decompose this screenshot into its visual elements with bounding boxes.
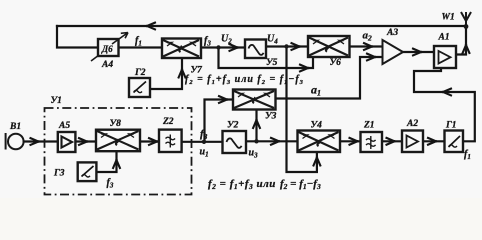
wire B1 to A5 — [24, 140, 58, 142]
wire left drop to D6 — [57, 26, 98, 48]
output stage A1 — [434, 46, 456, 68]
wire A3 to A1 — [403, 51, 434, 53]
svg-text:А2: А2 — [406, 119, 418, 129]
wire arrow into U8 — [79, 138, 87, 145]
svg-text:У4: У4 — [311, 121, 323, 131]
wire node u1 up to mixer U3 input — [205, 100, 234, 142]
wire arrow into A2 — [387, 138, 395, 145]
node dot u3 — [254, 139, 258, 143]
wire U6 output a2 to A3 — [350, 45, 383, 47]
svg-text:У8: У8 — [110, 119, 122, 129]
wire U4-signal drop to mixer U4 — [287, 47, 317, 173]
filter Z1 — [361, 132, 383, 152]
svg-text:W1: W1 — [442, 13, 455, 23]
oscillator G2 — [129, 78, 150, 97]
wire top long line — [57, 25, 466, 27]
wire top-line left arrow — [147, 23, 155, 30]
wire G2 to U7 bottom — [150, 58, 182, 89]
svg-text:А1: А1 — [438, 33, 450, 43]
wire arrow up to antenna — [463, 45, 470, 53]
wire U3 output a1 to A3 lower input — [276, 57, 383, 99]
wire U2 to U4 — [246, 140, 298, 142]
microphone B1 — [6, 133, 24, 150]
mixer U7 — [162, 39, 201, 59]
wire f3 branch down and right to U6 bottom — [219, 48, 314, 69]
mixer U6 — [308, 36, 350, 57]
dashed enclosure U1 — [45, 108, 192, 195]
svg-text:У1: У1 — [51, 96, 62, 106]
node dot U4 — [284, 44, 288, 48]
wire U4 to Z1 — [340, 140, 361, 142]
svg-text:У3: У3 — [265, 112, 277, 122]
wire arrow f3 branch — [300, 65, 308, 72]
svg-text:f2 = f1+f3 или: f2 = f1+f3 или — [208, 178, 276, 191]
wire U5 to U6 — [266, 45, 308, 47]
svg-text:Z2: Z2 — [162, 117, 174, 127]
wire G3 to U8 bottom — [96, 152, 116, 173]
wire arrow into A1 — [413, 49, 421, 56]
wire A1 output up to antenna — [454, 27, 466, 55]
wire arrow into U6 — [292, 43, 300, 50]
wire arrow into G1 — [428, 138, 436, 145]
wire arrow up into U7 — [179, 70, 186, 78]
amp A5 — [58, 132, 76, 152]
antenna W1 — [461, 12, 471, 27]
svg-text:Г3: Г3 — [53, 169, 65, 179]
svg-text:У6: У6 — [330, 58, 342, 68]
wire U8 to Z2 — [140, 140, 159, 142]
wire arrow a1 into A3 — [367, 54, 375, 61]
wire arrow after u3 node — [271, 138, 279, 145]
wire arrow up u3 — [253, 120, 260, 128]
phase shifter U5 — [245, 40, 266, 59]
wire Z2 to U2 — [182, 141, 223, 143]
svg-text:А5: А5 — [58, 121, 70, 131]
node dot f3/U2 — [216, 45, 220, 49]
wire u3 up into U3 bottom — [255, 110, 257, 142]
detector D6 box — [91, 33, 128, 62]
wire Z1 to A2 — [382, 140, 402, 142]
wire arrow feedback left — [443, 89, 451, 96]
svg-text:Г2: Г2 — [134, 68, 146, 78]
mixer U8 — [96, 130, 140, 152]
wire G1 feedback up-left into A1 bottom — [414, 68, 475, 141]
bandpass U2 — [223, 131, 247, 153]
oscillator G1 — [445, 131, 464, 153]
wire arrow into U5 — [230, 44, 238, 51]
summing amp A3 — [383, 40, 404, 64]
wire D6 to U7, f1 — [119, 46, 163, 48]
wire arrow into Z2 — [149, 138, 157, 145]
mixer U4 — [298, 131, 341, 153]
node dot u1 — [202, 140, 206, 144]
mixer U3 — [233, 90, 276, 110]
wire arrow into A5 — [31, 138, 39, 145]
wire A2 to G1 — [423, 140, 445, 142]
wire arrow up into U8 — [113, 160, 120, 168]
svg-text:Д6: Д6 — [101, 44, 113, 54]
svg-text:У5: У5 — [266, 58, 278, 68]
node dot antenna — [464, 24, 469, 29]
svg-text:А3: А3 — [386, 28, 398, 38]
svg-text:Г1: Г1 — [445, 121, 457, 131]
svg-text:Z1: Z1 — [363, 121, 375, 131]
svg-text:У2: У2 — [227, 121, 239, 131]
wire arrow into Z1 — [350, 138, 358, 145]
wire U7 to U5 — [201, 46, 245, 48]
amp A2 — [402, 131, 423, 153]
wire arrow a2 into A3 — [364, 43, 372, 50]
oscillator G3 — [78, 162, 97, 181]
svg-text:В1: В1 — [9, 122, 21, 132]
filter Z2 — [159, 130, 182, 152]
wire arrow into U3 left — [219, 96, 227, 103]
wire A5 to U8 — [75, 140, 96, 142]
wire arrow up into U4 — [314, 158, 321, 166]
svg-text:А4: А4 — [101, 60, 113, 70]
